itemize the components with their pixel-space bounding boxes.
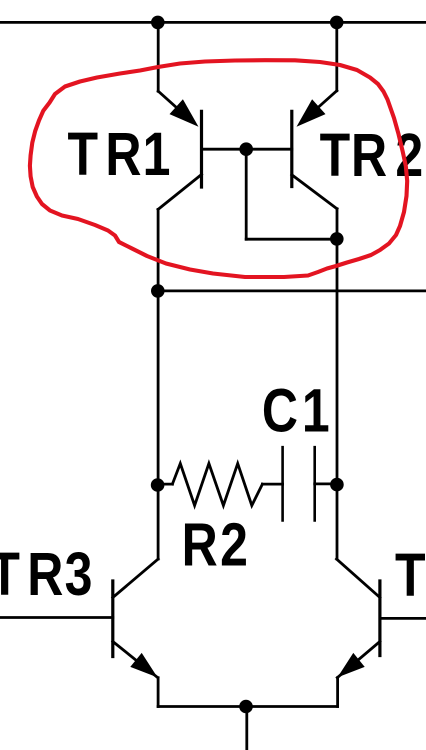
node bottom center <box>239 700 253 714</box>
transistor TR4 base bar <box>378 581 381 656</box>
wire top supply rail <box>0 21 426 24</box>
svg-text:R2: R2 <box>182 511 248 579</box>
wire TR4 base lead <box>380 617 426 620</box>
wire left vertical TR1 collector to TR3 <box>157 209 160 559</box>
arrowhead TR1 emitter <box>170 99 199 127</box>
node base-collector tie <box>330 232 344 246</box>
node top right <box>330 16 344 30</box>
wire TR2 collector diagonal <box>292 175 337 209</box>
svg-text:C1: C1 <box>262 377 330 445</box>
wire TR4 emitter diagonal <box>337 642 380 678</box>
wire TR1 collector diagonal <box>158 175 201 210</box>
wire TR1 emitter drop <box>157 22 160 91</box>
arrowhead TR2 emitter <box>297 99 326 127</box>
wire TR2 emitter diagonal <box>302 91 337 122</box>
wire base tie horizontal <box>246 238 337 241</box>
wire TR2 emitter drop <box>335 22 338 90</box>
node top left <box>151 16 165 30</box>
arrowhead TR4 emitter <box>338 653 365 678</box>
wire R2 left stub <box>158 483 173 486</box>
wire TR3 base lead <box>0 616 113 619</box>
svg-text:TR1: TR1 <box>67 120 170 188</box>
resistor R2 zigzag <box>172 464 262 506</box>
wire bottom tail <box>245 707 248 750</box>
wire mid rail output <box>158 289 426 292</box>
red annotation loop around TR1/TR2 <box>30 60 407 277</box>
transistor TR1 base bar <box>200 111 203 187</box>
wire right vertical TR2 collector to TR4 <box>336 209 339 559</box>
wire TR3 emitter diagonal <box>113 642 158 678</box>
svg-text:TR4: TR4 <box>395 541 426 609</box>
node C1 right <box>330 478 344 492</box>
svg-text:TR3: TR3 <box>0 540 92 608</box>
wire TR1 emitter diagonal <box>158 91 193 122</box>
wire R2 to C1 <box>262 483 282 486</box>
transistor TR2 base bar <box>290 111 293 186</box>
wire base link TR1-TR2 <box>202 148 292 151</box>
arrowhead TR3 emitter <box>130 653 157 678</box>
node base center <box>239 142 253 156</box>
wire TR4 emitter drop <box>336 678 339 707</box>
transistor TR3 base bar <box>111 581 114 657</box>
node mid rail <box>151 284 165 298</box>
wire TR3 collector diagonal <box>113 559 158 598</box>
wire base tie vertical <box>245 149 248 239</box>
wire TR4 collector diagonal <box>337 559 380 598</box>
capacitor C1 left plate <box>281 447 284 520</box>
wire TR3 emitter drop <box>157 678 160 707</box>
wire bottom rail <box>158 705 338 708</box>
capacitor C1 right plate <box>313 447 316 520</box>
wire C1 right stub <box>315 482 337 485</box>
node R2 left <box>151 478 165 492</box>
